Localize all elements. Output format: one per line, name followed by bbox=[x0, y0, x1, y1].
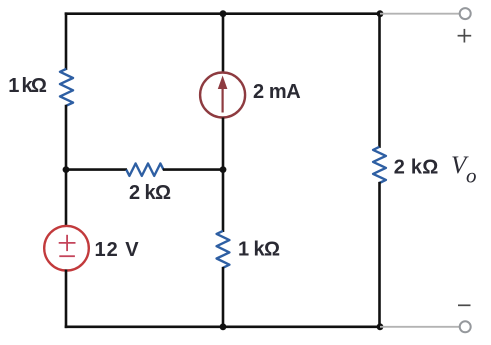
wire left rail upper segment bbox=[65, 12, 68, 70]
terminal top (open circle) bbox=[460, 8, 471, 19]
wire lead to top terminal (grey) bbox=[380, 13, 460, 15]
wire middle rail lower segment bbox=[222, 267, 225, 328]
voltage source V1 12V bbox=[44, 226, 89, 271]
wire middle rail centre segment bbox=[222, 118, 225, 233]
svg-text:2 mA: 2 mA bbox=[253, 81, 300, 103]
wire left rail lower segment bbox=[65, 270, 68, 329]
svg-text:2 kΩ: 2 kΩ bbox=[394, 157, 439, 179]
node junction middle-wire left bbox=[63, 166, 70, 173]
wire lead to bottom terminal (grey) bbox=[380, 326, 460, 328]
node junction middle-wire right bbox=[220, 166, 227, 173]
node junction bottom-right bbox=[377, 323, 384, 330]
resistor R2 2 kOhm (middle horizontal) bbox=[126, 164, 163, 176]
label minus (output polarity) bbox=[458, 304, 471, 306]
svg-text:1 kΩ: 1 kΩ bbox=[8, 75, 47, 97]
wire bottom bbox=[65, 325, 380, 328]
wire right rail upper segment bbox=[378, 12, 381, 148]
node junction top-right bbox=[377, 10, 384, 17]
svg-text:1 kΩ: 1 kΩ bbox=[238, 239, 280, 261]
resistor R1 1 kOhm (left) bbox=[60, 69, 73, 106]
wire middle rail upper segment bbox=[222, 12, 225, 72]
svg-text:2 kΩ: 2 kΩ bbox=[129, 182, 171, 204]
wire right rail lower segment bbox=[378, 182, 381, 328]
label + (output polarity) bbox=[458, 29, 472, 43]
wire middle horizontal right segment bbox=[163, 168, 223, 171]
svg-text:o: o bbox=[466, 164, 477, 188]
wire top (node A) bbox=[65, 12, 380, 15]
wire left rail middle segment bbox=[65, 105, 68, 227]
resistor R3 1 kOhm (middle vertical) bbox=[217, 231, 230, 268]
node junction top-middle bbox=[220, 10, 227, 17]
wire middle horizontal left segment bbox=[66, 168, 127, 171]
node junction bottom-middle bbox=[220, 323, 227, 330]
resistor R4 2 kOhm (right) bbox=[373, 147, 386, 183]
current source I1 2mA bbox=[200, 73, 245, 118]
terminal bottom (open circle) bbox=[460, 321, 471, 332]
svg-text:12 V: 12 V bbox=[95, 239, 140, 261]
